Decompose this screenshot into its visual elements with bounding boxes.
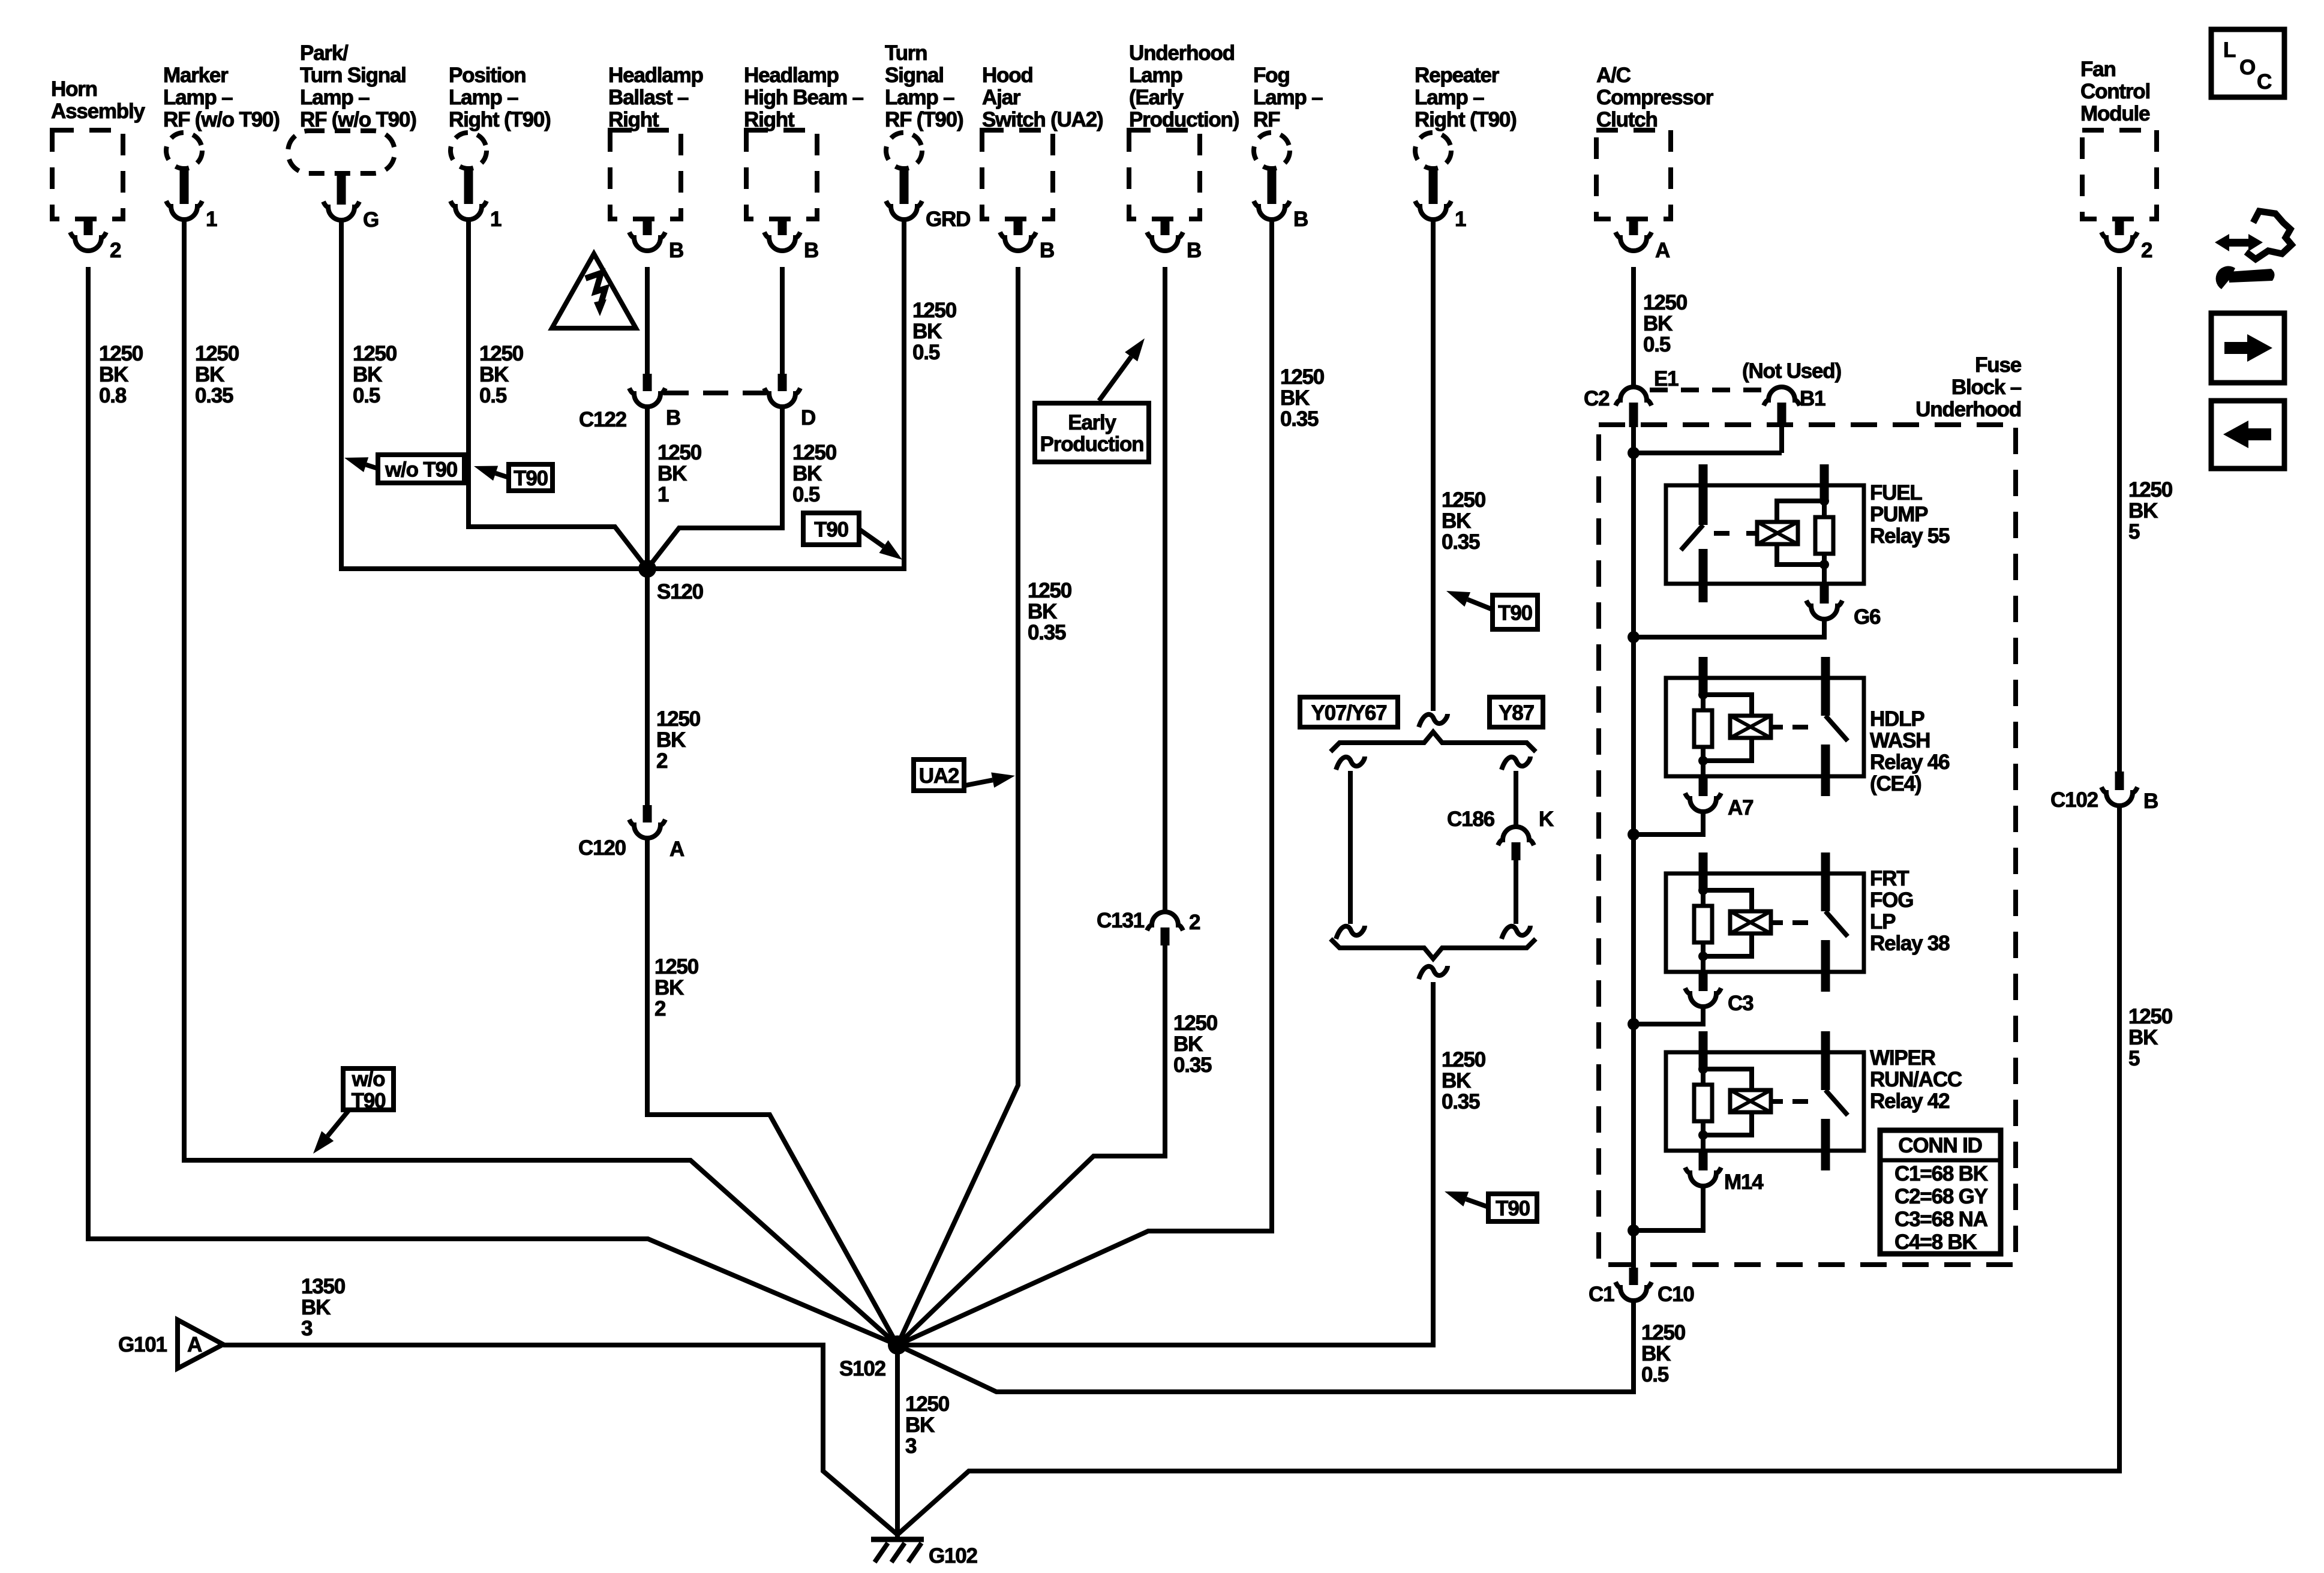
svg-text:Fog: Fog — [1253, 64, 1290, 87]
svg-text:Early: Early — [1068, 411, 1116, 434]
svg-text:BK: BK — [2128, 499, 2158, 523]
svg-text:w/o: w/o — [352, 1068, 386, 1091]
svg-text:1250: 1250 — [905, 1392, 950, 1416]
svg-text:BK: BK — [195, 363, 224, 386]
svg-text:E1: E1 — [1654, 367, 1679, 391]
svg-text:Right (T90): Right (T90) — [449, 108, 551, 131]
svg-text:HDLP: HDLP — [1870, 707, 1924, 731]
svg-text:1250: 1250 — [912, 299, 957, 322]
svg-text:Lamp –: Lamp – — [300, 86, 370, 109]
svg-text:Ajar: Ajar — [982, 86, 1021, 109]
svg-text:Lamp –: Lamp – — [1253, 86, 1323, 109]
svg-text:Ballast –: Ballast – — [608, 86, 689, 109]
svg-text:1250: 1250 — [99, 342, 143, 365]
svg-text:BK: BK — [1173, 1032, 1203, 1056]
svg-text:0.5: 0.5 — [479, 384, 507, 407]
svg-text:2: 2 — [110, 239, 121, 262]
svg-text:(Early: (Early — [1129, 86, 1184, 109]
svg-text:Lamp –: Lamp – — [449, 86, 518, 109]
svg-text:BK: BK — [1641, 1342, 1671, 1365]
svg-text:1250: 1250 — [479, 342, 524, 365]
svg-text:BK: BK — [301, 1296, 331, 1319]
svg-text:Block –: Block – — [1951, 376, 2022, 399]
svg-text:w/o T90: w/o T90 — [385, 458, 458, 482]
svg-text:0.35: 0.35 — [1280, 407, 1319, 431]
svg-text:1: 1 — [490, 208, 502, 231]
svg-text:B: B — [804, 239, 818, 262]
svg-text:BK: BK — [912, 320, 942, 343]
svg-text:B: B — [1040, 239, 1054, 262]
svg-text:3: 3 — [301, 1317, 313, 1340]
svg-text:1250: 1250 — [654, 955, 699, 978]
svg-text:A/C: A/C — [1596, 64, 1631, 87]
svg-text:1250: 1250 — [1442, 1048, 1486, 1071]
svg-text:1250: 1250 — [656, 707, 701, 731]
svg-text:0.35: 0.35 — [1173, 1053, 1212, 1077]
svg-text:0.5: 0.5 — [1643, 333, 1671, 356]
svg-text:O: O — [2239, 56, 2255, 79]
svg-text:1250: 1250 — [195, 342, 239, 365]
svg-text:Assembly: Assembly — [51, 100, 145, 123]
svg-text:C131: C131 — [1097, 909, 1145, 932]
svg-text:1250: 1250 — [1643, 291, 1688, 314]
svg-text:RUN/ACC: RUN/ACC — [1870, 1068, 1962, 1091]
svg-text:Control: Control — [2080, 80, 2150, 103]
svg-text:2: 2 — [656, 749, 668, 773]
svg-text:RF (T90): RF (T90) — [885, 108, 963, 131]
svg-text:G101: G101 — [118, 1333, 167, 1356]
svg-text:5: 5 — [2128, 520, 2140, 544]
svg-text:1: 1 — [206, 208, 217, 231]
svg-text:Repeater: Repeater — [1415, 64, 1500, 87]
svg-text:(CE4): (CE4) — [1870, 772, 1921, 795]
svg-text:Signal: Signal — [885, 64, 944, 87]
svg-text:Fuse: Fuse — [1975, 353, 2022, 377]
svg-text:0.5: 0.5 — [353, 384, 380, 407]
svg-text:2: 2 — [2141, 239, 2152, 262]
svg-text:BK: BK — [2128, 1026, 2158, 1049]
svg-text:0.35: 0.35 — [1442, 530, 1480, 554]
svg-text:C: C — [2257, 70, 2272, 94]
svg-text:Park/: Park/ — [300, 41, 349, 65]
svg-text:1250: 1250 — [1028, 579, 1072, 602]
svg-text:BK: BK — [1280, 386, 1310, 410]
svg-text:A7: A7 — [1728, 796, 1753, 819]
svg-text:Y87: Y87 — [1499, 701, 1534, 725]
svg-text:0.35: 0.35 — [195, 384, 233, 407]
svg-text:RF (w/o T90): RF (w/o T90) — [300, 108, 416, 131]
svg-text:PUMP: PUMP — [1870, 503, 1928, 526]
svg-text:FOG: FOG — [1870, 888, 1913, 912]
svg-text:Compressor: Compressor — [1596, 86, 1714, 109]
svg-text:3: 3 — [905, 1434, 917, 1458]
svg-text:1250: 1250 — [1641, 1321, 1686, 1344]
svg-text:1: 1 — [1455, 208, 1466, 231]
svg-text:1250: 1250 — [2128, 1005, 2173, 1028]
svg-text:S102: S102 — [839, 1357, 886, 1380]
svg-text:BK: BK — [1028, 600, 1057, 623]
svg-text:CONN ID: CONN ID — [1898, 1134, 1981, 1157]
svg-text:WIPER: WIPER — [1870, 1046, 1936, 1070]
svg-text:Turn Signal: Turn Signal — [300, 64, 406, 87]
svg-text:T90: T90 — [814, 518, 848, 542]
svg-text:Turn: Turn — [885, 41, 927, 65]
svg-text:D: D — [801, 406, 815, 430]
svg-text:1250: 1250 — [353, 342, 397, 365]
svg-text:Horn: Horn — [51, 77, 97, 101]
svg-text:BK: BK — [1442, 1069, 1471, 1092]
svg-text:B1: B1 — [1800, 387, 1825, 410]
svg-text:BK: BK — [99, 363, 128, 386]
svg-text:Lamp –: Lamp – — [163, 86, 233, 109]
svg-text:B: B — [2143, 789, 2158, 813]
svg-text:A: A — [187, 1333, 202, 1356]
svg-text:C186: C186 — [1447, 807, 1495, 831]
svg-text:BK: BK — [657, 462, 687, 485]
svg-text:T90: T90 — [1498, 602, 1532, 625]
svg-text:B: B — [669, 239, 683, 262]
svg-text:Fan: Fan — [2080, 58, 2116, 81]
svg-text:Production: Production — [1040, 433, 1144, 456]
svg-text:Hood: Hood — [982, 64, 1033, 87]
svg-text:Headlamp: Headlamp — [608, 64, 703, 87]
svg-text:0.5: 0.5 — [912, 341, 940, 364]
svg-text:A: A — [1655, 239, 1670, 262]
svg-text:LP: LP — [1870, 910, 1896, 933]
svg-text:C3: C3 — [1728, 992, 1753, 1015]
svg-text:Underhood: Underhood — [1915, 398, 2021, 421]
svg-text:C120: C120 — [578, 836, 626, 860]
svg-text:BK: BK — [792, 462, 822, 485]
svg-text:1250: 1250 — [1442, 488, 1486, 512]
svg-text:C3=68 NA: C3=68 NA — [1894, 1208, 1988, 1231]
svg-text:1250: 1250 — [1280, 365, 1325, 389]
svg-text:Position: Position — [449, 64, 526, 87]
svg-text:T90: T90 — [514, 467, 548, 490]
svg-text:0.5: 0.5 — [1641, 1363, 1669, 1386]
svg-text:Underhood: Underhood — [1129, 41, 1235, 65]
svg-text:Y07/Y67: Y07/Y67 — [1311, 701, 1387, 725]
svg-text:C1: C1 — [1589, 1283, 1614, 1306]
svg-text:C2: C2 — [1584, 387, 1610, 410]
svg-text:Relay 38: Relay 38 — [1870, 932, 1950, 955]
svg-text:G: G — [363, 208, 379, 232]
svg-text:Lamp –: Lamp – — [885, 86, 954, 109]
svg-text:2: 2 — [654, 997, 666, 1020]
svg-text:0.35: 0.35 — [1442, 1090, 1480, 1113]
svg-text:FUEL: FUEL — [1870, 481, 1922, 505]
svg-text:G6: G6 — [1854, 605, 1881, 629]
svg-text:1350: 1350 — [301, 1275, 346, 1298]
svg-text:Relay 55: Relay 55 — [1870, 524, 1950, 548]
svg-text:5: 5 — [2128, 1047, 2140, 1070]
svg-text:B: B — [1187, 239, 1201, 262]
svg-text:Lamp: Lamp — [1129, 64, 1182, 87]
svg-text:1250: 1250 — [792, 441, 837, 464]
svg-text:L: L — [2223, 38, 2236, 62]
svg-text:T90: T90 — [1496, 1197, 1530, 1220]
svg-text:BK: BK — [905, 1413, 935, 1437]
svg-text:C102: C102 — [2050, 788, 2098, 812]
svg-text:High Beam –: High Beam – — [744, 86, 864, 109]
svg-text:B: B — [1293, 208, 1308, 231]
svg-text:UA2: UA2 — [919, 764, 959, 788]
svg-text:C4=8 BK: C4=8 BK — [1894, 1230, 1977, 1254]
svg-text:Marker: Marker — [163, 64, 229, 87]
svg-text:T90: T90 — [352, 1089, 386, 1113]
svg-text:0.35: 0.35 — [1028, 621, 1066, 644]
svg-text:Relay 42: Relay 42 — [1870, 1089, 1950, 1113]
svg-text:BK: BK — [1643, 312, 1673, 335]
svg-text:WASH: WASH — [1870, 729, 1930, 752]
svg-text:G102: G102 — [929, 1544, 978, 1568]
svg-text:RF (w/o T90): RF (w/o T90) — [163, 108, 280, 131]
svg-text:Module: Module — [2080, 102, 2150, 125]
svg-text:BK: BK — [654, 976, 684, 999]
svg-text:BK: BK — [656, 728, 686, 752]
svg-text:0.5: 0.5 — [792, 483, 820, 506]
svg-text:1250: 1250 — [657, 441, 702, 464]
svg-text:Relay 46: Relay 46 — [1870, 751, 1950, 774]
svg-text:0.8: 0.8 — [99, 384, 127, 407]
svg-text:Lamp –: Lamp – — [1415, 86, 1484, 109]
svg-text:C10: C10 — [1658, 1283, 1694, 1306]
svg-text:1250: 1250 — [1173, 1011, 1218, 1035]
svg-text:B: B — [666, 406, 680, 430]
svg-text:C2=68 GY: C2=68 GY — [1894, 1185, 1988, 1208]
svg-text:Headlamp: Headlamp — [744, 64, 839, 87]
svg-text:BK: BK — [479, 363, 509, 386]
svg-text:C1=68 BK: C1=68 BK — [1894, 1162, 1988, 1185]
svg-text:C122: C122 — [579, 408, 627, 431]
svg-text:K: K — [1539, 807, 1554, 831]
svg-text:GRD: GRD — [926, 208, 970, 231]
svg-text:(Not Used): (Not Used) — [1742, 359, 1841, 383]
svg-text:RF: RF — [1253, 108, 1280, 131]
svg-text:M14: M14 — [1724, 1170, 1764, 1194]
svg-text:1250: 1250 — [2128, 478, 2173, 502]
svg-text:BK: BK — [1442, 509, 1471, 533]
svg-text:A: A — [669, 837, 684, 861]
svg-text:2: 2 — [1189, 911, 1200, 934]
svg-text:1: 1 — [657, 483, 669, 506]
svg-text:S120: S120 — [657, 580, 704, 604]
svg-text:FRT: FRT — [1870, 867, 1909, 890]
svg-text:BK: BK — [353, 363, 382, 386]
svg-text:Right (T90): Right (T90) — [1415, 108, 1517, 131]
